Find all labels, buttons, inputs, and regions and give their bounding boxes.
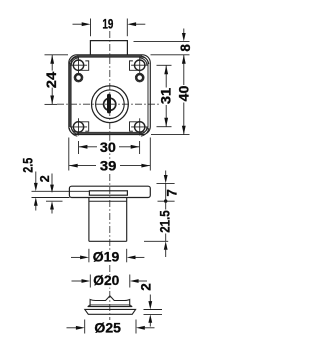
svg-text:30: 30 [100,140,116,155]
dim 24 [44,55,68,105]
screw hole BR [130,118,149,136]
dim 8 [134,29,194,52]
step line [46,200,175,202]
dim d25 [67,320,155,336]
svg-text:31: 31 [158,87,173,104]
dim 21.5 [158,201,173,257]
svg-text:19: 19 [102,16,113,31]
ring hole right [135,73,144,82]
dim 31 [157,65,174,126]
cylinder circle inner [96,90,125,119]
svg-text:2: 2 [38,175,52,182]
screw hole BL [69,118,88,136]
plate inner line [70,56,148,133]
svg-text:8: 8 [178,44,193,52]
svg-text:7: 7 [165,189,180,197]
svg-text:21.5: 21.5 [158,210,173,233]
svg-text:Ø25: Ø25 [94,320,121,335]
ring hole left [74,73,83,82]
svg-text:Ø19: Ø19 [93,250,120,265]
screw hole TR [130,56,149,74]
tab [90,41,127,55]
flange top ext right [157,182,175,184]
side view slot [89,191,127,195]
svg-text:2: 2 [138,283,153,291]
side view flange [69,186,150,197]
dim 19 [73,16,146,36]
svg-text:40: 40 [177,86,192,102]
dim 2.5 [21,157,38,210]
svg-text:24: 24 [44,71,59,88]
svg-text:39: 39 [100,159,117,174]
dim 7 [164,171,180,203]
screw hole TL [69,56,88,74]
dim d20 [72,273,148,288]
dim 2 washer [138,283,162,326]
dim d19 [71,249,144,265]
dim 30 [79,140,140,155]
washer disc [85,309,136,314]
dim 39 [69,138,151,174]
washer cap [88,296,133,307]
centerline horizontal [57,103,163,105]
svg-text:2.5: 2.5 [21,157,36,172]
keyhole core circle [104,98,116,110]
keyhole slot bar [107,94,111,114]
dim 2 side [38,174,54,214]
plate outer [69,55,151,135]
cylinder circle outer [92,86,129,123]
svg-text:Ø20: Ø20 [93,273,119,288]
dim 40 [151,55,192,135]
flange ext lines left [32,191,90,197]
cylinder side [89,198,168,242]
centerline vertical [109,31,111,320]
